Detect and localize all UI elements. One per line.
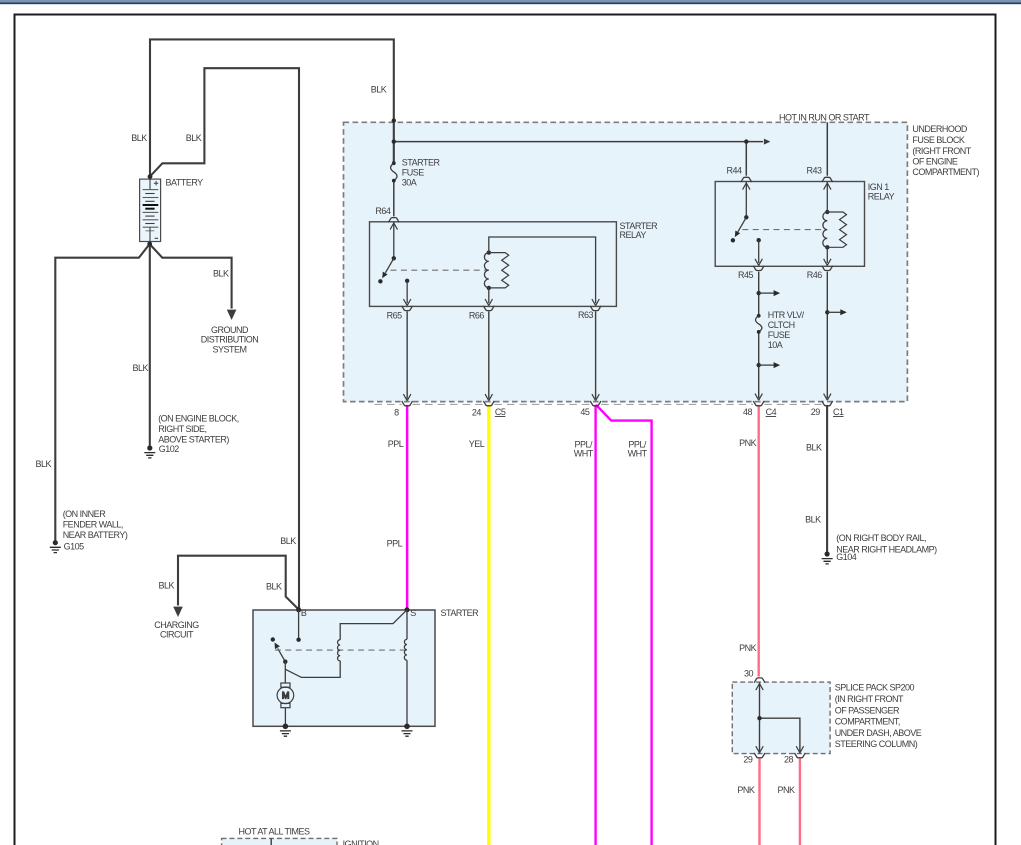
svg-text:BLK: BLK xyxy=(213,268,229,278)
svg-text:STARTER: STARTER xyxy=(402,158,441,168)
starter switch to motor wire xyxy=(284,662,286,683)
splice down arrow pin 29 xyxy=(756,746,763,753)
wire PPL/WHT: branch from pin 45 down off page xyxy=(596,405,652,845)
svg-text:BLK: BLK xyxy=(806,443,822,453)
wire: hot in run or start to R43 xyxy=(826,122,828,175)
arrowhead: to ground distribution system xyxy=(227,310,237,320)
svg-text:CIRCUIT: CIRCUIT xyxy=(160,630,194,640)
svg-text:FUSE: FUSE xyxy=(768,330,791,340)
svg-text:PPL: PPL xyxy=(388,439,404,449)
starter relay box U1 xyxy=(370,222,617,307)
wire: battery positive to starter B (BLK cable) xyxy=(150,68,299,610)
wire: R65 to pin 8 xyxy=(406,311,408,398)
ground G102 xyxy=(144,445,155,458)
starter relay switch arm xyxy=(378,222,397,284)
connector bump R64 xyxy=(388,218,399,223)
wire PPL: pin 8 to starter S xyxy=(406,405,409,610)
branch arrow right 2 xyxy=(759,364,774,366)
branch arrow right 3 xyxy=(827,311,840,313)
svg-text:BLK: BLK xyxy=(805,514,821,524)
ign relay coil L2 xyxy=(823,182,847,266)
fuse F2 HTR VLV/CLTCH FUSE 10A xyxy=(756,314,762,334)
underhood fuse block (dashed box) xyxy=(344,122,908,401)
svg-text:G104: G104 xyxy=(836,552,857,562)
svg-text:R44: R44 xyxy=(726,166,742,176)
svg-text:WHT: WHT xyxy=(574,448,594,458)
battery B1 xyxy=(140,179,161,241)
svg-text:RELAY: RELAY xyxy=(868,191,895,201)
splice pin 29 bump xyxy=(754,753,765,758)
starter relay coil to R66 xyxy=(488,288,490,303)
wire: R66 to pin 24 xyxy=(488,311,490,398)
node: battery positive junction xyxy=(148,174,153,179)
starter S terminal node xyxy=(405,607,410,612)
svg-text:8: 8 xyxy=(394,407,399,417)
starter mechanical link (dashed) xyxy=(275,649,405,651)
starter box xyxy=(253,610,435,726)
starter switch arm xyxy=(271,637,288,664)
svg-text:48: 48 xyxy=(743,407,753,417)
svg-text:PNK: PNK xyxy=(739,438,757,448)
ign relay output contact to R45 xyxy=(755,238,762,265)
arrowhead at R66 xyxy=(485,299,492,306)
starter hold-in coil L3 xyxy=(338,640,341,661)
svg-text:BLK: BLK xyxy=(158,580,174,590)
wire: battery negative to G105 (BLK) xyxy=(55,244,149,541)
connector bump R66 xyxy=(483,306,494,311)
svg-text:R45: R45 xyxy=(738,270,754,280)
arrowhead at pin 29 xyxy=(824,394,831,401)
svg-text:R66: R66 xyxy=(469,310,485,320)
svg-text:G102: G102 xyxy=(159,444,180,454)
node: R46 branch junction xyxy=(825,310,829,314)
node: fuse block entry junction xyxy=(392,118,396,122)
svg-text:(IN RIGHT FRONT: (IN RIGHT FRONT xyxy=(835,694,904,704)
arrowhead at pin 24 xyxy=(485,394,492,401)
svg-text:30A: 30A xyxy=(402,178,417,188)
svg-text:G105: G105 xyxy=(64,541,85,551)
svg-text:R64: R64 xyxy=(375,206,391,216)
node: R45 branch junction 1 xyxy=(757,291,761,295)
starter hold-in coil branch from S xyxy=(285,610,407,678)
splice pack SP200 (dashed box) xyxy=(732,682,830,754)
svg-text:NEAR BATTERY): NEAR BATTERY) xyxy=(63,530,128,540)
wire: battery positive to fuse block (BLK) xyxy=(150,39,394,176)
connector bump R45 xyxy=(753,266,764,271)
svg-text:BLK: BLK xyxy=(132,363,148,373)
svg-text:(ON ENGINE BLOCK,: (ON ENGINE BLOCK, xyxy=(158,414,239,424)
svg-text:29: 29 xyxy=(811,407,821,417)
starter pull-in coil wire from S to ground xyxy=(406,610,408,727)
connector pin 48 bump (C4) xyxy=(753,401,764,406)
svg-text:STARTER: STARTER xyxy=(441,608,480,618)
svg-text:R63: R63 xyxy=(578,310,594,320)
svg-text:S: S xyxy=(410,608,416,618)
svg-text:WHT: WHT xyxy=(628,448,648,458)
ignition box internal stub xyxy=(270,838,272,845)
svg-text:DISTRIBUTION: DISTRIBUTION xyxy=(201,335,259,345)
arrowhead at pin 45 xyxy=(592,394,599,401)
wire PNK: splice pin 28 down off page xyxy=(799,759,801,845)
svg-text:BLK: BLK xyxy=(280,536,296,546)
ign relay switch arm xyxy=(731,182,750,243)
svg-text:BLK: BLK xyxy=(131,133,147,143)
svg-text:STEERING COLUMN): STEERING COLUMN) xyxy=(835,739,918,749)
starter relay coil L1 xyxy=(484,250,508,290)
wire: R46 to pin 29 xyxy=(826,272,828,399)
ign 1 relay box U2 xyxy=(715,182,864,267)
connector bump R43 xyxy=(822,177,833,182)
wire: splice pack internal branch to pin 28 xyxy=(760,718,800,753)
svg-text:PPL: PPL xyxy=(387,538,403,548)
connector bump R46 xyxy=(822,266,833,271)
svg-text:(RIGHT FRONT: (RIGHT FRONT xyxy=(912,146,971,156)
svg-text:28: 28 xyxy=(784,755,794,765)
svg-text:C5: C5 xyxy=(495,407,506,417)
svg-text:R43: R43 xyxy=(806,166,822,176)
wire PNK: splice pin 29 down off page xyxy=(758,759,760,845)
svg-text:GROUND: GROUND xyxy=(211,325,249,335)
svg-text:10A: 10A xyxy=(768,340,783,350)
svg-text:BATTERY: BATTERY xyxy=(166,178,204,188)
ignition switch box (partial, bottom edge of page) xyxy=(222,838,337,845)
motor M1 xyxy=(277,683,294,726)
svg-text:FUSE: FUSE xyxy=(402,168,425,178)
wire: starter B branch to charging circuit (BLK) xyxy=(178,556,299,610)
wire: node to R44 xyxy=(745,142,747,176)
svg-text:CHARGING: CHARGING xyxy=(154,620,199,630)
arrowhead: bus continues right xyxy=(764,139,771,145)
svg-text:HOT IN RUN OR START: HOT IN RUN OR START xyxy=(779,113,870,123)
splice internal up arrow xyxy=(756,684,763,691)
svg-text:SYSTEM: SYSTEM xyxy=(212,344,246,354)
wire: battery negative to G102 (BLK) xyxy=(149,244,151,446)
starter B terminal node xyxy=(296,607,301,612)
svg-text:R65: R65 xyxy=(387,310,403,320)
ground G105 xyxy=(50,540,61,552)
wire: splice pack internal vertical xyxy=(759,682,761,753)
starter pull-in coil L4 xyxy=(404,639,407,660)
svg-text:BLK: BLK xyxy=(266,581,282,591)
svg-text:YEL: YEL xyxy=(469,439,485,449)
svg-text:B: B xyxy=(301,608,307,618)
wire: R63 to pin 45 xyxy=(595,311,597,398)
connector pin 45 bump xyxy=(590,401,601,406)
svg-text:29: 29 xyxy=(743,755,753,765)
ground G104 xyxy=(822,551,833,564)
arrowhead at pin 48 xyxy=(755,394,762,401)
connector pin 24 bump (C5) xyxy=(483,401,494,406)
starter relay output contact to R65 xyxy=(403,279,411,306)
svg-text:COMPARTMENT): COMPARTMENT) xyxy=(912,167,979,177)
splice pin 30 bump xyxy=(754,678,765,683)
svg-text:CLTCH: CLTCH xyxy=(768,320,795,330)
wire: fuse block bus from starter fuse node to ign relay (node) xyxy=(394,141,763,143)
starter relay mechanical link (dashed) xyxy=(391,269,487,271)
splice down arrow pin 28 xyxy=(796,746,803,753)
svg-text:COMPARTMENT,: COMPARTMENT, xyxy=(835,717,900,727)
connector bump R63 xyxy=(590,306,601,311)
wire PPL/WHT: pin 45 down off page xyxy=(594,405,596,845)
wire: starter fuse to relay pin R64 xyxy=(393,181,395,217)
svg-text:RELAY: RELAY xyxy=(620,230,647,240)
node: ign bus junction at R44 xyxy=(744,139,748,143)
svg-text:OF PASSENGER: OF PASSENGER xyxy=(835,705,900,715)
svg-text:HOT AT ALL TIMES: HOT AT ALL TIMES xyxy=(238,826,310,836)
wire: battery negative to ground distribution system (BLK) xyxy=(150,244,232,309)
wire: R45 chain to pin 48 xyxy=(758,272,760,399)
wire PNK: pin 48 to splice pack pin 30 xyxy=(758,405,760,677)
svg-text:PNK: PNK xyxy=(737,785,755,795)
svg-text:FENDER WALL,: FENDER WALL, xyxy=(63,519,123,529)
svg-text:BLK: BLK xyxy=(371,85,387,95)
svg-text:R46: R46 xyxy=(807,270,823,280)
arrowhead at R63 xyxy=(592,299,599,306)
node: R45 branch junction 2 xyxy=(757,363,761,367)
arrowhead at pin 8 xyxy=(403,394,411,401)
node: battery negative junction xyxy=(147,242,152,247)
connector bump R65 xyxy=(402,306,413,311)
starter motor ground xyxy=(280,724,291,737)
arrowhead: to charging circuit xyxy=(173,607,183,617)
wire BLK: pin 29 to G104 xyxy=(826,405,828,552)
svg-text:BLK: BLK xyxy=(35,459,51,469)
starter B internal stub xyxy=(298,610,300,638)
svg-text:M: M xyxy=(282,691,289,701)
svg-text:24: 24 xyxy=(472,407,482,417)
node: starter fuse bus junction xyxy=(392,139,396,143)
ign relay mechanical link (dashed) xyxy=(742,229,823,231)
svg-text:BLK: BLK xyxy=(186,133,202,143)
connector pin 29 bump (C1) xyxy=(822,401,833,406)
connector strip dashed line (C5/C4/C1 row) xyxy=(375,403,822,405)
connector bump R44 xyxy=(741,177,752,182)
svg-text:(ON INNER: (ON INNER xyxy=(63,509,106,519)
svg-text:OF ENGINE: OF ENGINE xyxy=(912,156,958,166)
starter solenoid ground xyxy=(402,724,413,737)
svg-text:C4: C4 xyxy=(766,407,777,417)
svg-text:30: 30 xyxy=(744,668,754,678)
branch arrow right 1 xyxy=(759,292,774,294)
node: splice junction xyxy=(757,716,761,720)
wire YEL: pin 24 down off page xyxy=(487,405,490,845)
starter relay coil feed to R63 xyxy=(489,237,596,303)
svg-text:IGNITION: IGNITION xyxy=(343,839,379,845)
svg-text:HTR VLV/: HTR VLV/ xyxy=(768,310,805,320)
connector pin 8 bump xyxy=(402,401,413,406)
svg-text:C1: C1 xyxy=(833,407,844,417)
fuse F1 STARTER FUSE 30A xyxy=(391,161,397,182)
svg-text:FUSE BLOCK: FUSE BLOCK xyxy=(912,135,965,145)
svg-text:45: 45 xyxy=(580,407,590,417)
splice pin 28 bump xyxy=(795,753,806,758)
svg-text:RIGHT SIDE,: RIGHT SIDE, xyxy=(158,424,206,434)
svg-text:UNDERHOOD: UNDERHOOD xyxy=(912,124,968,134)
top bar xyxy=(0,0,1021,2)
svg-text:SPLICE PACK SP200: SPLICE PACK SP200 xyxy=(835,683,915,693)
svg-text:(ON RIGHT BODY RAIL,: (ON RIGHT BODY RAIL, xyxy=(836,533,926,543)
svg-text:UNDER DASH, ABOVE: UNDER DASH, ABOVE xyxy=(835,728,922,738)
svg-text:PNK: PNK xyxy=(777,785,795,795)
svg-text:PNK: PNK xyxy=(739,643,757,653)
